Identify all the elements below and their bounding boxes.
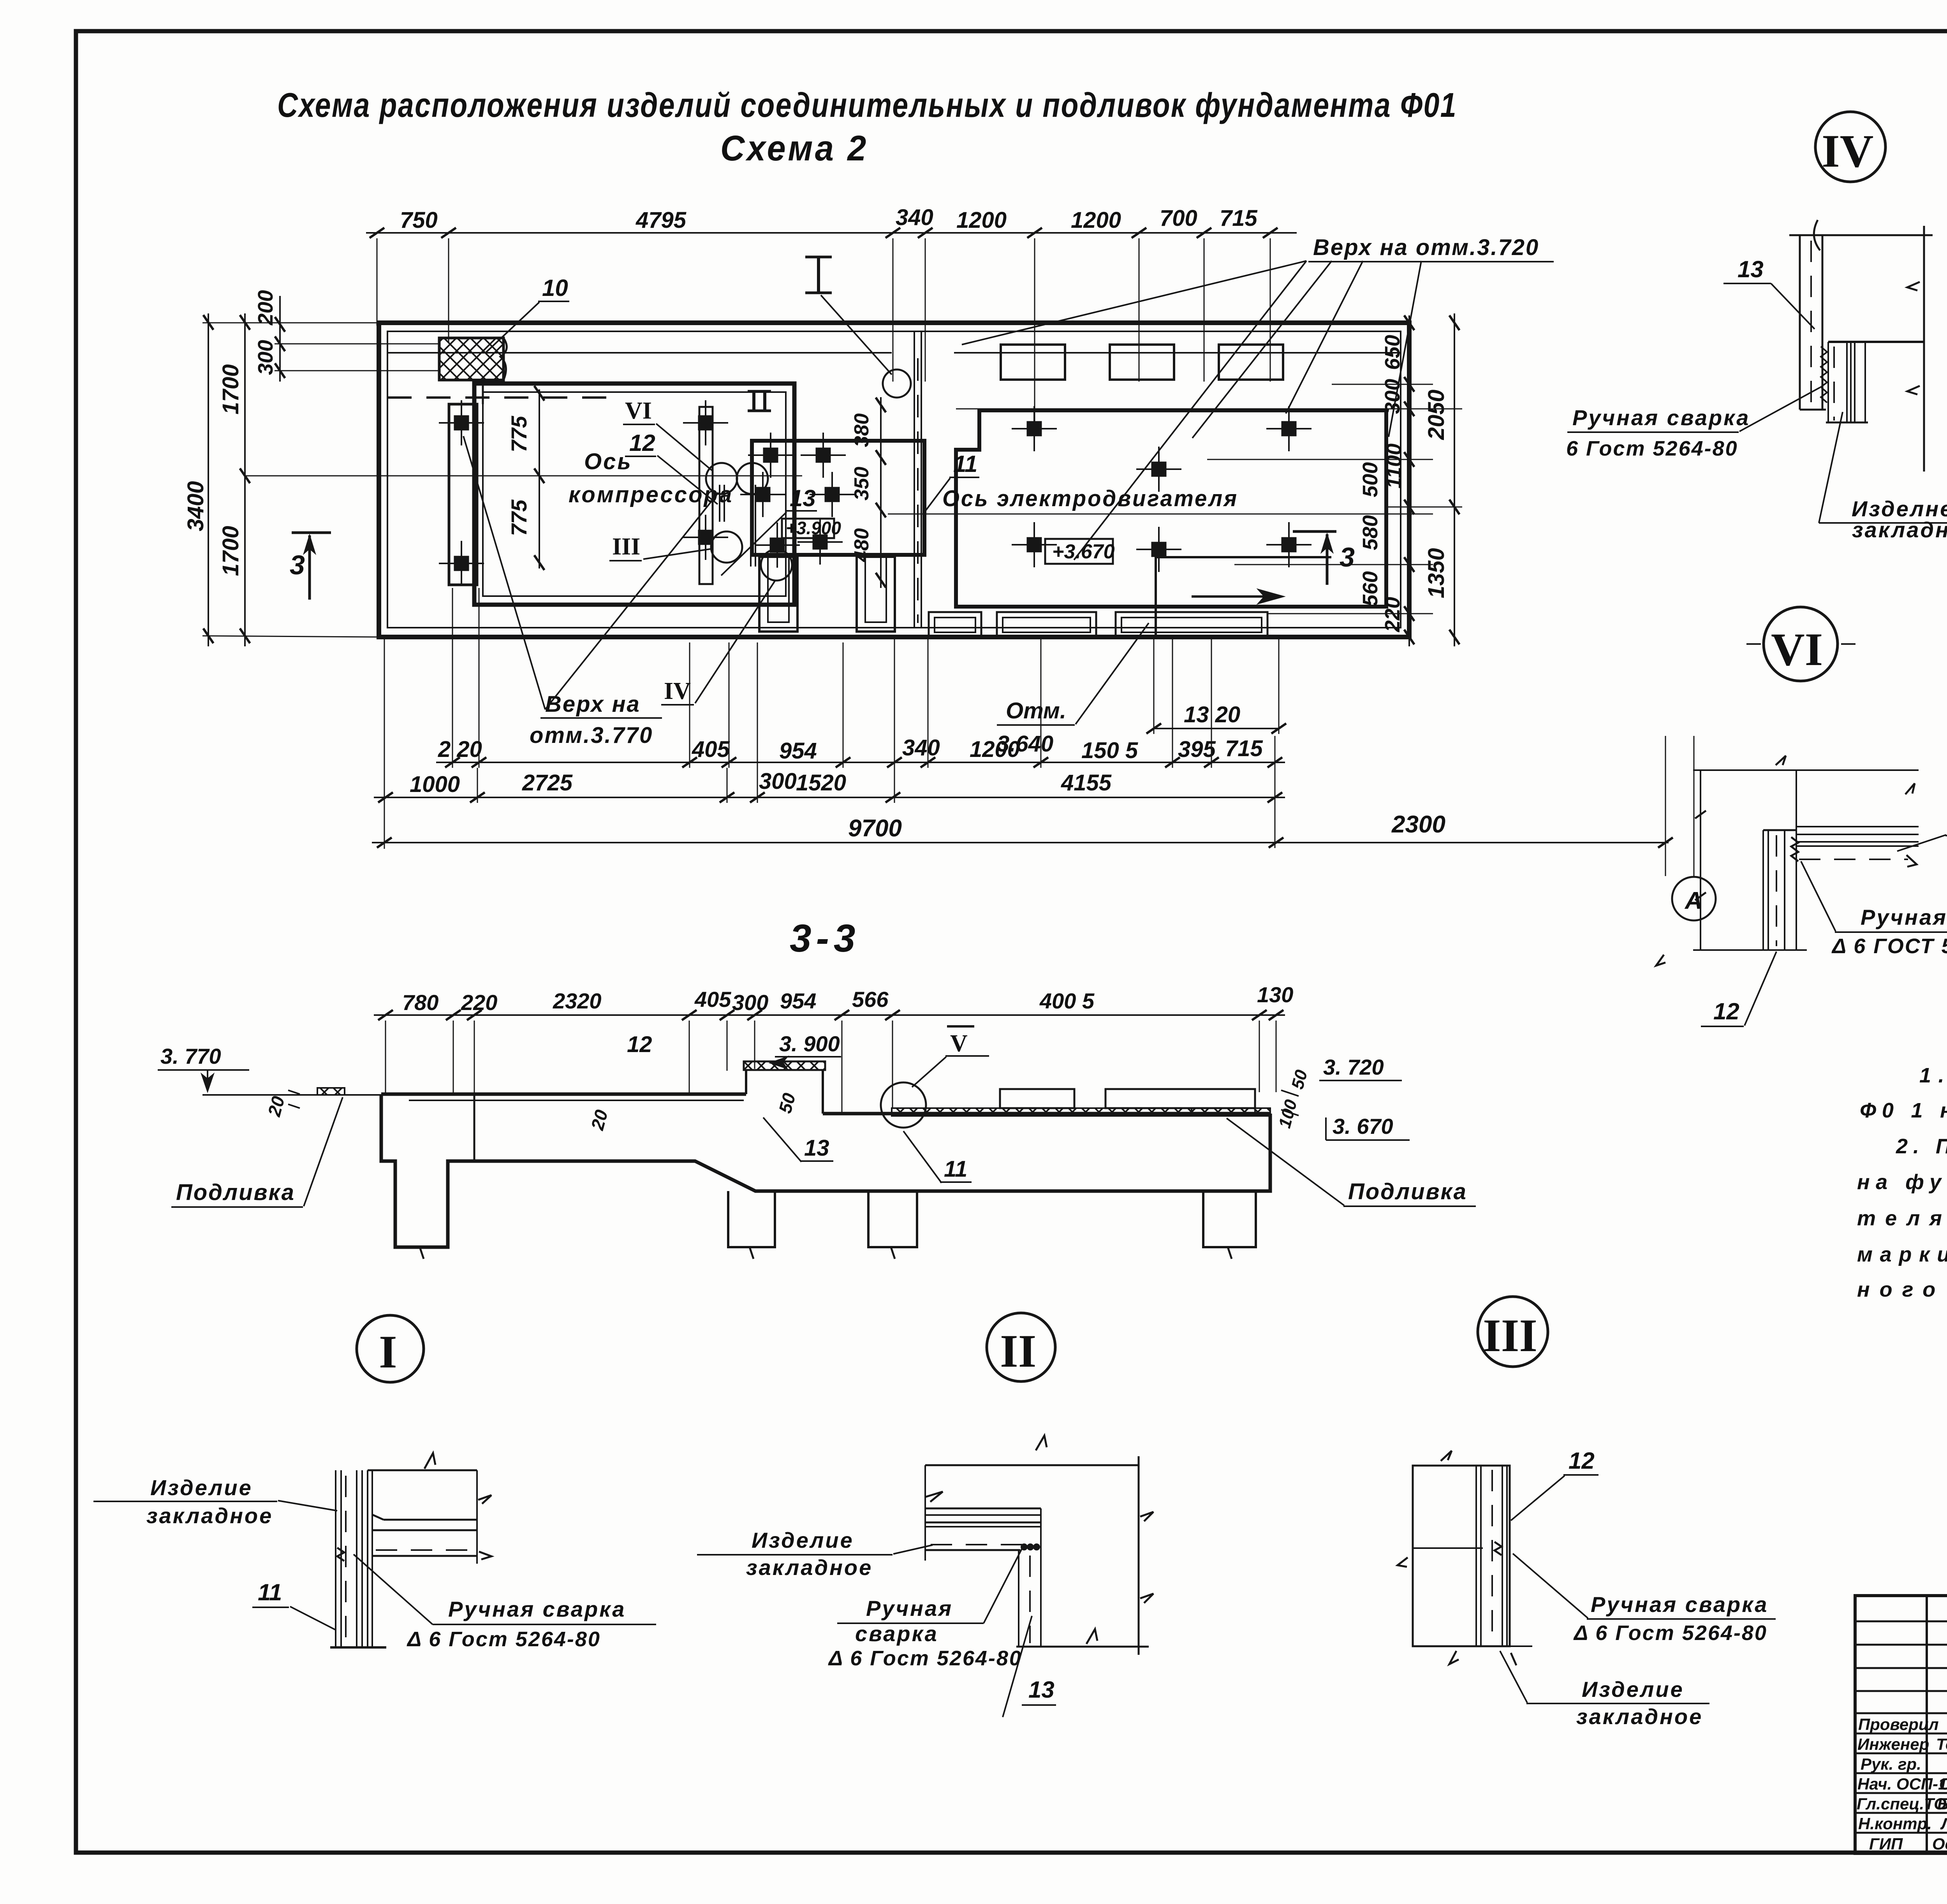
svg-text:20: 20 [264,1094,289,1119]
plan: label Верх на отм.3.720 with fan leaders [962,235,1554,560]
svg-text:220: 220 [1381,597,1404,632]
svg-text:Ручная сварка: Ручная сварка [1572,405,1750,430]
svg-text:закладное: закладное [1576,1704,1703,1729]
svg-text:III: III [612,533,640,560]
plan: label Ось электродвигателя [942,486,1238,511]
svg-text:3: 3 [1340,542,1355,572]
plan: label 10 with leader [486,275,569,352]
main title line 2 [720,128,868,168]
detail II: embedded bar and column [925,1436,1153,1655]
section 3-3: grout plate left (подливка wedge) [317,1088,345,1095]
detail II: label 13 [1003,1616,1056,1717]
svg-text:Изделие: Изделие [752,1528,854,1552]
svg-text:130: 130 [1257,982,1293,1007]
svg-text:11: 11 [944,1156,967,1182]
section 3-3: level mark 3.770 [158,1044,249,1093]
svg-text:1200: 1200 [956,208,1007,233]
detail IV: embedded plate and wall [1789,220,1933,472]
svg-text:закладное: закладное [1852,517,1947,542]
detail III: label Ручная сварка ГОСТ [1513,1554,1776,1645]
svg-text:1350: 1350 [1424,548,1449,598]
dims: left dimension column 3400 1700 1700 200 300 [183,290,439,646]
svg-text:3. 670: 3. 670 [1333,1114,1393,1139]
detail III: label Изделие закладное [1500,1651,1709,1729]
svg-text:закладное: закладное [146,1503,273,1528]
svg-text:300: 300 [254,340,277,375]
detail IV: label Изделие закладное [1819,412,1947,542]
plan: foundation outer wall [379,323,1409,637]
dims: bottom row 9700 and 2300 [372,811,1673,848]
detail circle VI [1746,607,1855,681]
svg-text:700: 700 [1160,206,1197,231]
svg-text:50: 50 [1288,1068,1311,1091]
svg-text:100: 100 [1275,1097,1301,1130]
section 3-3: label 13 with leader [763,1117,833,1162]
svg-text:сварка: сварка [855,1621,938,1646]
svg-text:1000: 1000 [410,772,460,797]
svg-text:12: 12 [1713,998,1739,1024]
svg-text:Δ 6 ГОСТ 5264-80: Δ 6 ГОСТ 5264-80 [1831,934,1947,958]
svg-text:340: 340 [902,735,940,760]
grid axis circle A [1672,736,1716,920]
svg-text:Осташевский: Осташевский [1932,1835,1947,1853]
svg-text:Верх на: Верх на [545,692,641,717]
svg-text:2050: 2050 [1424,389,1449,440]
svg-text:VI: VI [1771,623,1823,675]
svg-text:Саакьянц: Саакьянц [1939,1775,1947,1793]
plan: middle block item 13 [740,433,924,568]
svg-text:Верх на отм.3.720: Верх на отм.3.720 [1313,235,1539,260]
plan: label VI with leader [623,398,712,470]
plan: bottom-right step with arrow [1156,557,1331,637]
svg-text:Проверил: Проверил [1858,1715,1939,1733]
detail II: label Ручная сварка [828,1549,1022,1670]
svg-text:4795: 4795 [636,208,687,233]
svg-text:300: 300 [759,769,797,794]
plan: right anchor strip [699,407,713,584]
plan: label Ось компрессора [569,449,733,507]
svg-text:2725: 2725 [522,770,573,795]
svg-text:ГИП: ГИП [1869,1835,1903,1853]
svg-text:220: 220 [461,990,497,1015]
plan: top strip window openings [1001,345,1283,380]
svg-text:405: 405 [692,737,730,762]
detail II: label Изделие закладное [697,1528,933,1580]
detail circle III [1478,1297,1548,1367]
plan: dashed axis through recess [387,380,617,404]
detail VI: wall corner and embedded bar [1656,756,1919,966]
main title line 1 [277,86,1457,124]
svg-text:650: 650 [1381,335,1404,370]
detail VI: label 12 [1701,952,1776,1026]
svg-text:2 20: 2 20 [438,737,482,762]
title block: main stamp outline [1855,1596,1947,1853]
svg-text:Луценко: Луценко [1940,1814,1947,1833]
svg-text:Δ 6 Гост 5264-80: Δ 6 Гост 5264-80 [407,1628,601,1651]
svg-text:405: 405 [694,987,731,1012]
svg-text:Бояренко: Бояренко [1937,1795,1947,1813]
detail III: label 12 [1511,1448,1598,1520]
svg-text:марки 200, остальная подлив: марки 200, остальная подливка из цемент- [1857,1243,1947,1266]
svg-text:715: 715 [1220,206,1258,231]
svg-text:Нач. ОСП-1: Нач. ОСП-1 [1857,1775,1947,1793]
svg-text:300: 300 [732,990,768,1015]
svg-text:III: III [1483,1309,1537,1361]
plan: motor slab [956,410,1386,607]
svg-text:580: 580 [1359,515,1382,550]
svg-text:1. Все каналы в пределах: 1. Все каналы в пределах фундамента [1919,1064,1947,1087]
svg-text:на фундаменте Ф01 в предел: на фундаменте Ф01 в пределах электродвиг… [1857,1170,1947,1194]
svg-text:закладное: закладное [746,1555,873,1580]
detail VI: label Изделие закладное [1897,809,1947,860]
svg-text:Δ 6 Гост 5264-80: Δ 6 Гост 5264-80 [828,1647,1022,1670]
svg-text:Толмачева: Толмачева [1936,1735,1947,1753]
plan: label 12 with leader [625,430,718,504]
svg-text:500: 500 [1359,462,1382,497]
svg-text:780: 780 [402,990,438,1015]
plan: motor axis line [888,514,1433,515]
detail circle I [357,1315,424,1382]
svg-text:566: 566 [852,987,889,1012]
svg-text:+3.670: +3.670 [1052,540,1115,563]
svg-text:1520: 1520 [796,770,846,795]
plan: label 11 with leader [924,451,979,513]
detail I: label 11 [252,1579,336,1630]
svg-text:1100: 1100 [1382,443,1406,489]
detail circle II [987,1313,1055,1381]
svg-text:ного раствора марки 150: ного раствора марки 150 [1857,1278,1947,1301]
svg-text:12: 12 [627,1032,652,1057]
plan: compressor anchor bolts [439,400,728,586]
section 3-3: label 11 with leader [903,1131,972,1183]
svg-text:+3.900: +3.900 [786,518,841,538]
svg-text:750: 750 [400,208,438,233]
svg-text:IV: IV [664,678,691,704]
svg-text:Δ 6 Гост 5264-80: Δ 6 Гост 5264-80 [1573,1621,1767,1645]
svg-text:715: 715 [1225,736,1263,761]
detail IV: label Ручная сварка [1566,387,1820,460]
plan: section flag II [748,391,771,411]
svg-text:775: 775 [507,415,531,452]
svg-text:Ось: Ось [584,449,632,474]
dims: bottom row 1000 2725 300 1520 4155 [374,769,1285,802]
svg-text:1700: 1700 [218,364,243,414]
section 3-3: main slab profile [381,1094,1270,1247]
svg-text:Н.контр.: Н.контр. [1858,1814,1932,1833]
svg-text:3400: 3400 [183,481,208,531]
plan: middle channel wall [914,331,921,628]
svg-text:1700: 1700 [218,526,243,576]
dims: bottom row 220 405 954 340 1200 1505 395 715 [436,735,1285,767]
dims: extension lines to bottom rows [384,588,1665,876]
svg-text:12: 12 [1569,1448,1595,1474]
plan: elevation box +3.670 [1045,539,1115,564]
detail I: embedded column and bar [330,1453,491,1647]
section 3-3: slab legs [420,1191,1256,1259]
svg-text:Ручная сварка: Ручная сварка [1861,905,1947,929]
plan: section arrow 3 left [290,533,331,600]
title block: signature names [1857,1715,1947,1853]
plan: section flag I with leader and circle [805,257,911,398]
svg-text:3. 900: 3. 900 [779,1031,840,1056]
svg-text:V: V [950,1030,968,1057]
svg-text:954: 954 [780,989,816,1013]
svg-text:Ось электродвигателя: Ось электродвигателя [942,486,1238,511]
section 3-3: label Подливка right with leader [1227,1118,1476,1206]
plan: hatched recess item 10 [439,338,507,380]
plan: elevation box +3.900 [782,518,841,538]
section 3-3: detail circle V flag [881,1026,989,1128]
svg-text:теля выполнить подливку бет: теля выполнить подливку бетоном [1857,1207,1947,1230]
svg-text:Подливка: Подливка [176,1180,295,1205]
svg-text:3. 720: 3. 720 [1323,1055,1384,1079]
section 3-3: small dims 20 20 50 [264,1090,799,1133]
svg-text:395: 395 [1178,737,1216,762]
svg-text:Инженер: Инженер [1857,1735,1929,1753]
svg-text:13: 13 [1028,1677,1054,1703]
detail IV: label 13 [1723,256,1815,329]
svg-text:Отм.: Отм. [1006,698,1066,723]
svg-text:Гл.спец.ТО: Гл.спец.ТО [1857,1795,1947,1813]
detail VI: label Ручная сварка [1801,861,1947,958]
plan: left anchor pad [449,404,477,585]
svg-text:2300: 2300 [1391,811,1445,838]
svg-text:1200: 1200 [1071,208,1121,233]
svg-text:VI: VI [625,398,652,424]
svg-text:10: 10 [542,275,568,301]
plan: label Отм.3.640 with leader [997,623,1149,757]
svg-text:50: 50 [775,1091,799,1115]
svg-text:Рук. гр.: Рук. гр. [1861,1755,1921,1773]
svg-text:А: А [1684,887,1702,914]
svg-text:13: 13 [1738,256,1764,282]
svg-text:I: I [379,1326,397,1378]
svg-text:200: 200 [254,290,277,326]
plan: compressor slab [474,384,794,605]
svg-text:20: 20 [587,1107,612,1132]
svg-text:3: 3 [290,550,305,580]
detail circle IV [1815,112,1885,182]
svg-text:12: 12 [629,430,655,456]
detail I: label Изделие закладное [93,1475,337,1528]
svg-text:отм.3.770: отм.3.770 [530,723,653,748]
section 3-3: grout layer with plates (right part) [892,1089,1270,1116]
svg-text:Ручная: Ручная [866,1596,953,1621]
svg-text:1200: 1200 [970,737,1020,762]
detail I: label Ручная сварка ГОСТ [354,1554,656,1651]
svg-text:6 Гост 5264-80: 6 Гост 5264-80 [1566,437,1738,460]
plan: label 13 with leader [721,485,817,575]
section 3-3 title [790,917,860,960]
plan: interior dim 480 350 380 [850,397,886,588]
svg-text:Ф0 1 на отм. 3. 800 перекр: Ф0 1 на отм. 3. 800 перекрыть рифленой с… [1860,1099,1947,1122]
svg-text:13: 13 [804,1135,829,1161]
svg-text:340: 340 [896,205,933,230]
section 3-3: ground approach line [202,1094,386,1096]
svg-text:Схема 2: Схема 2 [720,128,868,168]
plan: detail marker circles on compressor axis [706,463,792,581]
svg-text:350: 350 [850,467,873,501]
section 3-3: middle pedestal +3.900 [744,1031,841,1114]
plan: channel slots below block [759,557,895,632]
svg-text:IV: IV [1822,125,1873,177]
plan: section arrow 3 right [1293,531,1355,585]
svg-text:150 5: 150 5 [1081,738,1138,763]
svg-text:954: 954 [779,738,817,764]
dims: top dimension line 750 4795 340 1200 1200 700 715 [366,205,1297,432]
plan: label Верх на отм.3.770 with leaders [463,436,718,748]
svg-text:Подливка: Подливка [1348,1179,1467,1204]
svg-text:11: 11 [258,1579,282,1605]
dims: right dimension columns 650 300 1100 2050 500 580 560 1130 220 1350 [956,313,1462,646]
notes text block [1857,1064,1947,1301]
section 3-3: label Подливка left with leader [171,1097,343,1207]
svg-text:II: II [1000,1325,1036,1377]
svg-text:11: 11 [953,451,977,477]
plan: compressor axis line [245,475,802,477]
section 3-3: right level marks 3.720 3.670 50 100 [1275,1055,1410,1140]
svg-text:13: 13 [790,485,816,511]
svg-text:775: 775 [507,499,531,536]
svg-text:Изделие: Изделие [150,1475,253,1500]
plan: bottom strip slots [929,612,1267,638]
svg-text:Ручная сварка: Ручная сварка [448,1597,626,1621]
plan: interior dim 775 775 [507,386,544,570]
svg-text:Изделие: Изделие [1582,1677,1684,1702]
svg-text:4155: 4155 [1061,770,1112,795]
svg-text:560: 560 [1359,571,1382,606]
svg-text:13 20: 13 20 [1184,702,1240,727]
svg-text:3-3: 3-3 [790,917,860,960]
plan: label IV with leader [661,581,775,705]
plan: motor anchor bolts [1012,406,1311,572]
svg-text:2320: 2320 [553,989,602,1013]
svg-text:3. 770: 3. 770 [160,1044,221,1068]
svg-text:Ручная сварка: Ручная сварка [1591,1592,1768,1617]
section 3-3 top dims 780 220 2320 405 300 954 566 4005 130 [374,982,1293,1113]
svg-text:2. После окончательной уста: 2. После окончательной установки агрегат… [1896,1135,1947,1158]
title block: signature table rows [1855,1596,1947,1853]
svg-text:Схема расположения изделий сое: Схема расположения изделий соединительны… [277,86,1457,124]
svg-text:9700: 9700 [848,815,902,842]
plan: label III with leader [609,533,710,561]
svg-text:400 5: 400 5 [1039,989,1095,1013]
detail III: embedded column [1398,1451,1532,1665]
dims: sub dim 1320 [1146,702,1286,734]
section 3-3: label 12 [627,1032,652,1057]
